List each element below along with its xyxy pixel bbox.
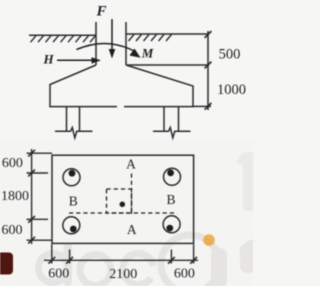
svg-text:2100: 2100 <box>109 267 137 282</box>
footing outline right half <box>124 65 193 107</box>
pile cap plan rectangle <box>52 155 194 243</box>
force arrow H <box>57 57 101 63</box>
svg-text:1800: 1800 <box>1 189 29 204</box>
column right edge <box>125 22 127 65</box>
force arrow F <box>109 19 116 59</box>
bottom extension line at plan left <box>51 244 53 263</box>
left extension line at bottom pile row <box>27 218 49 220</box>
svg-text:500: 500 <box>219 47 241 63</box>
watermark red logo block <box>0 253 13 275</box>
pile circle top-right <box>164 168 181 185</box>
pile break symbol right <box>153 128 191 138</box>
svg-text:B: B <box>166 192 175 207</box>
pile circle bottom-left <box>63 217 80 234</box>
ground hatch left <box>31 36 96 43</box>
bottom extension line at left pile column <box>69 250 71 264</box>
left extension line at plan top <box>27 152 53 154</box>
bottom extension line at plan right <box>193 244 195 263</box>
ground line right <box>126 33 209 35</box>
svg-text:600: 600 <box>174 267 195 282</box>
svg-text:A: A <box>126 156 136 171</box>
watermark i-stem bar <box>211 248 227 286</box>
svg-text:H: H <box>42 51 54 66</box>
watermark faint numeral right edge <box>236 152 254 211</box>
pile circle top-left <box>63 169 80 186</box>
pile left wall lines <box>66 107 68 132</box>
svg-text:600: 600 <box>2 156 23 171</box>
svg-text:B: B <box>69 193 78 208</box>
svg-text:A: A <box>127 222 137 237</box>
horizontal dimension line bottom <box>44 259 198 261</box>
svg-text:600: 600 <box>48 267 69 282</box>
pile right wall lines <box>163 107 165 132</box>
pile dot top-left <box>69 170 76 177</box>
svg-text:M: M <box>141 46 154 61</box>
watermark letter rings <box>39 235 268 286</box>
tick at ground level <box>205 31 212 38</box>
pile dot bottom-right <box>166 225 173 232</box>
bottom extension line at right pile column <box>170 250 172 264</box>
footing top extension line <box>126 64 209 66</box>
tick at footing bottom <box>205 103 212 110</box>
section axis B horizontal dashed line <box>69 212 177 214</box>
left extension line at plan bottom <box>27 239 53 241</box>
pile break symbol left <box>55 128 93 138</box>
column left edge <box>95 22 97 65</box>
left dimension ticks <box>28 150 35 244</box>
pile circle bottom-right <box>163 216 180 233</box>
svg-text:F: F <box>95 4 106 20</box>
moment arc M <box>77 43 141 57</box>
section axis A vertical dashed line <box>131 174 133 217</box>
tick at footing top <box>205 62 212 69</box>
svg-text:1000: 1000 <box>217 82 246 98</box>
svg-text:600: 600 <box>2 223 23 238</box>
footing outline left half <box>50 65 117 107</box>
vertical dimension line left <box>31 149 33 244</box>
ground line left <box>29 34 96 36</box>
bottom dimension ticks <box>48 257 197 264</box>
column center dot <box>120 202 126 208</box>
left extension line at top pile row <box>27 172 49 174</box>
footing bottom extension line <box>193 105 211 107</box>
watermark d-stem bar <box>64 243 73 286</box>
pile dot top-right <box>167 169 174 176</box>
watermark right-edge stem <box>240 243 256 273</box>
column dashed square <box>107 189 132 213</box>
watermark i-dot orange <box>203 234 215 246</box>
ground hatch right <box>129 35 172 42</box>
pile dot bottom-left <box>70 226 77 233</box>
vertical dimension line right <box>207 31 209 110</box>
